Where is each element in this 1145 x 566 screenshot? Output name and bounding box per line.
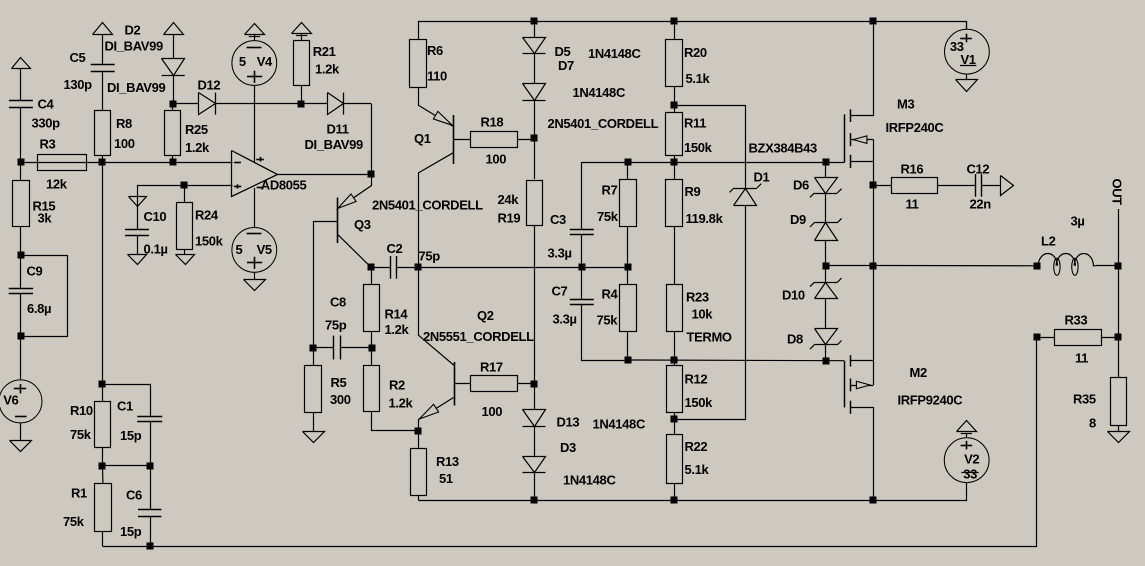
label R3 value xyxy=(46,177,68,192)
label D1 xyxy=(754,170,770,185)
wire Q2 collector diagonal xyxy=(418,335,454,366)
svg-text:119.8k: 119.8k xyxy=(686,211,724,226)
capacitor C7 xyxy=(570,300,594,305)
wire to D1 top xyxy=(675,106,746,189)
label L2 value xyxy=(1071,214,1085,229)
ground below R35 xyxy=(1108,432,1130,443)
label M3 model xyxy=(886,120,945,135)
svg-text:BZX384B43: BZX384B43 xyxy=(749,141,818,156)
label R13 value xyxy=(439,471,453,486)
wire R12 bottom stem xyxy=(674,413,676,420)
wire R5 top stem xyxy=(313,348,315,366)
wire Q2 emitter diagonal xyxy=(419,398,454,431)
resistor R1 xyxy=(95,484,112,532)
label C4 value xyxy=(32,116,61,131)
label V4 value xyxy=(239,54,246,69)
source V2 xyxy=(944,438,989,483)
node R14 bottom / R2 top xyxy=(369,345,376,352)
node op-amp output xyxy=(368,171,375,178)
svg-text:110: 110 xyxy=(427,69,447,84)
label R1 xyxy=(71,486,87,501)
label R33 value xyxy=(1075,351,1088,366)
svg-text:C9: C9 xyxy=(27,264,43,279)
label D3 model xyxy=(563,473,616,488)
svg-text:2N5401_CORDELL: 2N5401_CORDELL xyxy=(548,116,659,131)
node rail / D3 xyxy=(531,497,538,504)
diode D5 xyxy=(523,38,546,54)
mosfet M3 channel xyxy=(850,109,852,168)
wire mid rail xyxy=(418,267,628,269)
label C10 xyxy=(144,209,167,224)
port arrow above R21 xyxy=(292,23,312,36)
wire D3 to rail xyxy=(534,473,536,501)
label OUT xyxy=(1110,179,1125,206)
node bias/D6/M3 gate xyxy=(823,159,830,166)
label C4 xyxy=(38,97,55,112)
label R18 value xyxy=(486,152,507,167)
svg-text:D12: D12 xyxy=(198,78,221,93)
svg-text:R8: R8 xyxy=(116,116,132,131)
label R14 xyxy=(385,307,409,322)
svg-text:1.2k: 1.2k xyxy=(389,396,414,411)
wire C1 top stem xyxy=(103,385,151,417)
label M3 xyxy=(897,97,914,112)
wire R1 bottom stem xyxy=(102,531,104,546)
label R35 xyxy=(1073,392,1096,407)
wire V5 to ground xyxy=(254,272,256,279)
svg-text:R20: R20 xyxy=(684,45,707,60)
wire C8 left stem xyxy=(313,347,333,349)
underline V1 xyxy=(960,65,976,67)
svg-text:1.2k: 1.2k xyxy=(315,62,340,77)
label R9 xyxy=(685,184,701,199)
svg-text:IRFP9240C: IRFP9240C xyxy=(898,393,964,408)
resistor R17 xyxy=(471,376,518,392)
label C6 xyxy=(126,488,142,503)
zener D10 xyxy=(810,278,842,299)
node R7 bottom / rail end xyxy=(625,264,632,271)
wire V2 arrow stem xyxy=(966,434,968,438)
wire R7 stems xyxy=(627,162,629,267)
wire D5 top stem xyxy=(534,21,536,38)
label V1 xyxy=(960,52,975,67)
ground below V1 xyxy=(956,80,978,92)
svg-text:1N4148C: 1N4148C xyxy=(573,85,626,100)
svg-text:R35: R35 xyxy=(1073,392,1096,407)
wire rail to V1 xyxy=(966,21,968,29)
wire R12 top stem xyxy=(674,360,676,366)
op-amp U1 AD8055 xyxy=(232,151,278,197)
wire R11 bottom stem xyxy=(674,155,676,162)
wire C3 top to y162 xyxy=(582,163,628,230)
wire R8 bottom stem xyxy=(102,156,104,163)
wire M3 source xyxy=(851,161,874,163)
wire M2 drain xyxy=(851,266,874,361)
label M2 xyxy=(910,365,927,380)
label R8 xyxy=(116,116,132,131)
wire C2 left stem xyxy=(371,267,390,269)
wire R35 bottom stem xyxy=(1118,425,1120,431)
svg-text:D5: D5 xyxy=(555,44,571,59)
wire R24 top stem xyxy=(184,185,186,202)
wire R35 top stem xyxy=(1118,337,1120,377)
svg-text:75k: 75k xyxy=(597,209,619,224)
label M2 model xyxy=(898,393,964,408)
wire R24 to ground xyxy=(184,250,186,255)
label R23 TERMO xyxy=(687,330,732,345)
wire R2 top stem xyxy=(371,348,373,366)
svg-text:C8: C8 xyxy=(330,295,346,310)
label D12 model xyxy=(107,80,165,95)
wire R8-node down xyxy=(102,163,104,385)
wire V5 stem xyxy=(254,188,256,228)
node top rail / R20 xyxy=(671,18,678,25)
svg-text:Q3: Q3 xyxy=(354,217,371,232)
arrow Q1 emitter xyxy=(433,111,452,125)
svg-text:5.1k: 5.1k xyxy=(685,462,710,477)
wire C9 bypass loop xyxy=(21,256,68,337)
label R8 value xyxy=(114,136,135,151)
svg-text:R2: R2 xyxy=(389,378,405,393)
svg-text:22n: 22n xyxy=(970,197,992,212)
wire C7 to y360 xyxy=(582,305,628,361)
node inverting line left xyxy=(18,159,25,166)
wire M2 source xyxy=(851,408,874,501)
wire Q3 emitter diagonal xyxy=(337,175,372,210)
wire bias line y162 xyxy=(628,162,845,164)
node R7 top xyxy=(625,159,632,166)
node C8 left / R5 top xyxy=(310,345,317,352)
label R17 xyxy=(480,360,503,375)
mosfet M2 channel xyxy=(850,355,852,414)
resistor R14 xyxy=(364,285,380,332)
svg-text:3k: 3k xyxy=(38,211,53,226)
label R11 xyxy=(684,116,706,131)
node D2/D12/R25 xyxy=(170,101,177,108)
wire R33 right stem xyxy=(1101,337,1118,339)
wire V6 to ground xyxy=(20,423,22,441)
label R1 value xyxy=(63,514,85,529)
ground below V5 xyxy=(244,280,266,291)
label D7 model xyxy=(573,85,626,100)
label D13 model xyxy=(593,417,646,432)
wire R10 stems xyxy=(102,385,104,466)
wire R2 bottom to Q2 emitter node xyxy=(372,412,419,431)
svg-text:R17: R17 xyxy=(480,360,503,375)
label R20 xyxy=(684,45,707,60)
wire R5 to ground xyxy=(313,412,315,431)
wire R20-R11 xyxy=(674,87,676,113)
svg-text:R9: R9 xyxy=(685,184,701,199)
label C2 value xyxy=(419,249,441,264)
svg-text:DI_BAV99: DI_BAV99 xyxy=(107,80,165,95)
wire D10 top stem xyxy=(825,266,827,283)
svg-text:51: 51 xyxy=(439,471,453,486)
svg-text:OUT: OUT xyxy=(1110,179,1125,206)
svg-text:5: 5 xyxy=(239,54,246,69)
wire D1 bottom link xyxy=(675,206,746,420)
resistor R22 xyxy=(667,435,683,484)
svg-text:D3: D3 xyxy=(560,440,576,455)
svg-text:C6: C6 xyxy=(126,488,142,503)
resistor R9 xyxy=(666,180,683,227)
svg-text:V5: V5 xyxy=(257,242,272,257)
label R7 xyxy=(602,183,618,198)
label D5 xyxy=(555,44,571,59)
label D8 xyxy=(787,332,803,347)
mosfet M3 gate bar xyxy=(844,114,846,162)
svg-text:IRFP240C: IRFP240C xyxy=(886,120,945,135)
node diode chain mid xyxy=(823,263,830,270)
wire R6 top stem xyxy=(418,21,420,39)
node rail / M2 source xyxy=(870,497,877,504)
arrow Q3 emitter xyxy=(338,194,356,208)
wire Q2 base xyxy=(454,383,471,385)
svg-text:AD8055: AD8055 xyxy=(261,178,307,193)
diode D13 xyxy=(523,410,546,427)
port arrow above C5 xyxy=(93,23,113,35)
wire R17 right stem xyxy=(517,383,534,385)
wire R16 left stem xyxy=(873,185,891,187)
svg-text:C10: C10 xyxy=(144,209,167,224)
svg-text:3.3µ: 3.3µ xyxy=(548,246,572,261)
svg-text:150k: 150k xyxy=(685,395,714,410)
wire D6-D9 xyxy=(825,193,827,223)
label R10 xyxy=(70,403,93,418)
wire M2 bulk join xyxy=(873,361,875,385)
svg-text:8: 8 xyxy=(1089,416,1096,431)
label C9 xyxy=(27,264,43,279)
label V6 xyxy=(3,392,18,407)
svg-text:C5: C5 xyxy=(70,50,86,65)
resistor R13 xyxy=(411,449,427,496)
wire top +33V rail xyxy=(418,21,967,23)
wire D6 top stem xyxy=(825,162,827,177)
capacitor C9 xyxy=(9,289,33,294)
capacitor C4 xyxy=(9,101,33,108)
resistor R15 xyxy=(13,181,30,227)
label R14 value xyxy=(385,322,410,337)
wire C3 stem up xyxy=(581,235,583,268)
label C2 xyxy=(387,241,403,256)
label R19 xyxy=(498,211,521,226)
label C5 value xyxy=(64,77,93,92)
svg-text:C2: C2 xyxy=(387,241,403,256)
label C7 value xyxy=(553,312,577,327)
svg-text:D6: D6 xyxy=(793,178,809,193)
svg-text:M3: M3 xyxy=(897,97,914,112)
label D1 model xyxy=(749,141,818,156)
wire Q1 emitter diagonal xyxy=(418,105,453,127)
label C12 xyxy=(967,162,990,177)
svg-text:12k: 12k xyxy=(46,177,68,192)
source V5 xyxy=(232,228,277,273)
svg-text:V1: V1 xyxy=(960,52,975,67)
svg-text:D13: D13 xyxy=(557,415,580,430)
label R6 value xyxy=(427,69,447,84)
capacitor C1 xyxy=(137,417,162,422)
resistor R7 xyxy=(620,180,637,227)
node R17/R19/D13 xyxy=(531,381,538,388)
wire C4 to node xyxy=(20,107,22,163)
wire C7 stem xyxy=(581,267,583,299)
svg-text:R18: R18 xyxy=(481,115,504,130)
label R2 value xyxy=(389,396,414,411)
node R12/R22/D1 xyxy=(671,416,678,423)
label C8 value xyxy=(325,318,347,333)
label R4 value xyxy=(597,313,619,328)
wire D5-D7 xyxy=(534,54,536,84)
wire V2 bottom xyxy=(874,483,967,501)
diode D7 xyxy=(523,84,546,101)
svg-text:C1: C1 xyxy=(117,399,133,414)
strike minus V2 xyxy=(961,472,978,474)
svg-text:Q1: Q1 xyxy=(414,131,431,146)
svg-text:24k: 24k xyxy=(498,192,520,207)
wire bottom rail xyxy=(419,500,874,502)
label D5 model xyxy=(588,46,641,61)
wire inverting input line xyxy=(21,162,233,164)
svg-text:DI_BAV99: DI_BAV99 xyxy=(305,137,363,152)
label V4 xyxy=(257,54,273,69)
svg-text:5.1k: 5.1k xyxy=(686,71,711,86)
svg-text:D8: D8 xyxy=(787,332,803,347)
resistor R20 xyxy=(666,40,683,87)
wire D11 to corner xyxy=(343,103,371,105)
resistor R6 xyxy=(410,40,427,88)
svg-text:R4: R4 xyxy=(602,287,619,302)
wire R14 top stem xyxy=(371,267,373,284)
label Q1 model xyxy=(548,116,659,131)
zener D1 xyxy=(730,184,762,206)
port arrow above V4 xyxy=(245,24,265,37)
svg-text:M2: M2 xyxy=(910,365,927,380)
svg-text:R3: R3 xyxy=(40,137,56,152)
node output mid xyxy=(870,263,877,270)
label Q2 model xyxy=(423,329,534,344)
node C2 right / Q-collectors xyxy=(415,264,422,271)
diode D3 xyxy=(523,457,546,473)
svg-text:100: 100 xyxy=(486,152,507,167)
wire R13 top stem xyxy=(418,431,420,448)
resistor R21 xyxy=(294,41,310,86)
wire R18 right stem xyxy=(517,139,534,141)
inductor L2 xyxy=(1037,253,1096,275)
svg-text:150k: 150k xyxy=(684,140,713,155)
wire C1 bottom stem xyxy=(150,421,152,466)
label R23 xyxy=(686,290,709,305)
capacitor C8 xyxy=(334,336,341,360)
node top rail / D5 chain xyxy=(531,18,538,25)
svg-text:R16: R16 xyxy=(901,162,924,177)
label R18 xyxy=(481,115,504,130)
label R15 value xyxy=(38,211,53,226)
label Q1 xyxy=(414,131,431,146)
label D2 model xyxy=(105,39,163,54)
resistor R33 xyxy=(1055,330,1102,346)
wire R19 top stem xyxy=(534,139,536,180)
svg-text:V4: V4 xyxy=(257,54,273,69)
wire R21 bottom stem xyxy=(301,86,303,104)
label D6 xyxy=(793,178,809,193)
label R35 value xyxy=(1089,416,1096,431)
label R7 value xyxy=(597,209,619,224)
wire C2 right stem xyxy=(396,267,418,269)
wire Q3 base xyxy=(313,221,337,223)
label R4 xyxy=(602,287,619,302)
ground below R5 xyxy=(303,432,325,443)
wire D12 to D11 xyxy=(216,103,328,105)
label D10 xyxy=(782,288,805,303)
svg-text:D1: D1 xyxy=(754,170,770,185)
svg-text:2N5551_CORDELL: 2N5551_CORDELL xyxy=(423,329,534,344)
svg-text:11: 11 xyxy=(1075,351,1088,366)
capacitor C6 xyxy=(138,510,161,517)
wire Q1 collector down xyxy=(418,173,420,267)
capacitor C2 xyxy=(391,256,397,279)
wire node to D12 xyxy=(173,103,199,105)
resistor R10 xyxy=(95,402,111,448)
label D9 xyxy=(790,212,806,227)
svg-text:R10: R10 xyxy=(70,403,93,418)
node L2 right / OUT xyxy=(1115,263,1122,270)
port arrow above D2 xyxy=(164,23,184,35)
label C5 xyxy=(70,50,86,65)
wire ground rail xyxy=(103,338,1037,547)
label R2 xyxy=(389,378,405,393)
svg-text:R25: R25 xyxy=(185,122,208,137)
label R12 value xyxy=(685,395,714,410)
svg-text:1N4148C: 1N4148C xyxy=(593,417,646,432)
node Q2 emitter / R13 xyxy=(415,428,422,435)
port arrow zobel xyxy=(1001,176,1014,196)
capacitor C3 xyxy=(570,230,594,235)
svg-text:75k: 75k xyxy=(597,313,619,328)
wire D9 to mid node xyxy=(825,240,827,266)
wire R20 top stem xyxy=(674,21,676,39)
label D11 xyxy=(327,122,349,137)
port arrow above V2 xyxy=(957,421,977,434)
resistor R4 xyxy=(620,285,637,332)
svg-text:6.8µ: 6.8µ xyxy=(27,301,51,316)
svg-text:D2: D2 xyxy=(125,23,141,38)
wire Q1 emitter stub xyxy=(418,87,420,105)
resistor R8 xyxy=(95,111,111,156)
svg-text:R33: R33 xyxy=(1065,313,1088,328)
wire V1 drop xyxy=(966,21,968,29)
label R21 value xyxy=(315,62,340,77)
wire D13 top stem xyxy=(534,384,536,410)
wire chain mid to output node xyxy=(826,265,874,267)
label C7 xyxy=(552,284,568,299)
svg-text:1.2k: 1.2k xyxy=(385,322,410,337)
resistor R11 xyxy=(666,113,683,156)
svg-text:C3: C3 xyxy=(550,212,566,227)
ground below C10 xyxy=(128,255,147,265)
label R19 value xyxy=(498,192,520,207)
label D13 xyxy=(557,415,580,430)
node R18/R19/D7 xyxy=(531,135,538,142)
svg-text:V2: V2 xyxy=(964,452,979,467)
svg-text:3µ: 3µ xyxy=(1071,214,1085,229)
label D11 model xyxy=(305,137,363,152)
wire D10-D8 xyxy=(825,299,827,329)
label AD8055 xyxy=(261,178,307,193)
source V1 xyxy=(945,29,990,74)
node R4 bottom xyxy=(625,357,632,364)
label V5 xyxy=(257,242,272,257)
svg-text:C12: C12 xyxy=(967,162,990,177)
